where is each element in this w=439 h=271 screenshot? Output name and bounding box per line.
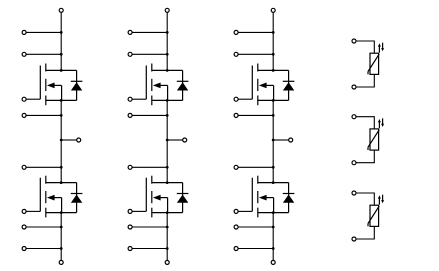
terminal: source aux pin 1 of Q6 column 3 (234, 225, 238, 229)
junction (272, 114, 275, 117)
terminal: gate pin of Q1 (22, 97, 26, 101)
diode D1 (body diode of Q1) (71, 70, 83, 100)
wire: rail to phase output column 2 (167, 139, 183, 141)
terminal: phase output pin column 2 (183, 138, 187, 142)
junction (272, 247, 275, 250)
junction (60, 53, 63, 56)
wire: bottom rail column 1 (60, 213, 62, 261)
junction (166, 226, 169, 229)
terminal: drain aux pin of Q2 column 1 (22, 165, 26, 169)
wire: gate lead of Q3 (132, 98, 146, 100)
wire: top rail column 1 (60, 12, 62, 70)
junction (166, 181, 169, 184)
terminal: source aux pin 2 of Q6 column 3 (234, 247, 238, 251)
terminal: source aux pin 2 of Q2 column 1 (22, 247, 26, 251)
terminal: phase output pin column 1 (77, 138, 81, 142)
wire: lower drain aux to rail column 3 (238, 166, 273, 168)
junction (60, 181, 63, 184)
junction (272, 226, 275, 229)
wire: drain aux 2 to rail column 1 (26, 53, 61, 55)
junction (272, 139, 275, 142)
diode D2 (body diode of Q2) (71, 183, 83, 213)
wire: mid rail (phase node) column 3 (272, 100, 274, 182)
junction (166, 99, 169, 102)
junction (60, 69, 63, 72)
thermistor R3 (NTC) (368, 195, 384, 227)
junction (60, 226, 63, 229)
terminal: bottom source pin column 2 (165, 260, 169, 264)
terminal: source aux pin of Q3 column 2 (128, 113, 132, 117)
terminal: drain aux pin 2 column 3 (234, 52, 238, 56)
terminal: thermistor R1 pin 2 (352, 85, 356, 89)
junction (272, 69, 275, 72)
wire: drain aux 2 to rail column 2 (132, 53, 167, 55)
wire: source aux to rail column 2 (132, 114, 167, 116)
wire: source aux to rail column 3 (238, 114, 273, 116)
junction (60, 247, 63, 250)
wire: R1 bottom lead (356, 74, 374, 87)
terminal: top drain pin, column 1 (59, 8, 63, 12)
wire: R1 top lead (356, 41, 374, 53)
junction (60, 139, 63, 142)
transistor Q5 (N-MOSFET) (252, 64, 288, 106)
wire: source aux 2 to rail column 3 (238, 248, 273, 250)
diode D6 (body diode of Q6) (283, 183, 295, 213)
terminal: source aux pin 1 of Q2 column 1 (22, 225, 26, 229)
junction (272, 181, 275, 184)
wire: rail to phase output column 3 (273, 139, 289, 141)
wire: mid rail (phase node) column 2 (166, 100, 168, 182)
wire: lower drain aux to rail column 2 (132, 166, 167, 168)
wire: rail to phase output column 1 (61, 139, 76, 141)
terminal: thermistor R3 pin 2 (352, 237, 356, 241)
terminal: drain aux pin 1 column 2 (128, 30, 132, 34)
wire: gate lead of Q5 (238, 98, 252, 100)
junction (166, 139, 169, 142)
terminal: bottom source pin column 3 (271, 260, 275, 264)
terminal: thermistor R2 pin 2 (352, 161, 356, 165)
terminal: drain aux pin of Q4 column 2 (128, 165, 132, 169)
terminal: drain aux pin 1 column 1 (22, 30, 26, 34)
wire: bottom rail column 3 (272, 213, 274, 261)
diode D5 (body diode of Q5) (283, 70, 295, 100)
junction (272, 53, 275, 56)
junction (166, 247, 169, 250)
junction (60, 31, 63, 34)
junction (166, 166, 169, 169)
wire: source aux 1 to rail column 3 (238, 226, 273, 228)
wire: gate lead of Q4 (132, 210, 146, 212)
terminal: drain aux pin 1 column 3 (234, 30, 238, 34)
wire: R3 bottom lead (356, 226, 374, 239)
terminal: bottom source pin column 1 (59, 260, 63, 264)
wire: top rail column 3 (272, 12, 274, 70)
terminal: phase output pin column 3 (289, 138, 293, 142)
wire: bottom rail column 2 (166, 213, 168, 261)
terminal: thermistor R2 pin 1 (352, 115, 356, 119)
wire: lower drain aux to rail column 1 (26, 166, 61, 168)
junction (272, 31, 275, 34)
junction (166, 114, 169, 117)
terminal: drain aux pin 2 column 1 (22, 52, 26, 56)
terminal: gate pin of Q4 (128, 209, 132, 213)
wire: source aux 2 to rail column 2 (132, 248, 167, 250)
wire: R2 top lead (356, 117, 374, 129)
junction (60, 99, 63, 102)
wire: drain aux 1 to rail column 1 (26, 31, 61, 33)
terminal: source aux pin 1 of Q4 column 2 (128, 225, 132, 229)
wire: mid rail (phase node) column 1 (60, 100, 62, 182)
wire: top rail column 2 (166, 12, 168, 70)
terminal: gate pin of Q6 (234, 209, 238, 213)
terminal: thermistor R3 pin 1 (352, 191, 356, 195)
diode D4 (body diode of Q4) (177, 183, 189, 213)
junction (60, 211, 63, 214)
terminal: drain aux pin 2 column 2 (128, 52, 132, 56)
terminal: gate pin of Q3 (128, 97, 132, 101)
transistor Q1 (N-MOSFET) (40, 64, 76, 106)
wire: R3 top lead (356, 193, 374, 205)
transistor Q2 (N-MOSFET) (40, 176, 76, 218)
wire: gate lead of Q6 (238, 210, 252, 212)
terminal: thermistor R1 pin 1 (352, 39, 356, 43)
transistor Q3 (N-MOSFET) (146, 64, 182, 106)
terminal: source aux pin 2 of Q4 column 2 (128, 247, 132, 251)
wire: source aux 2 to rail column 1 (26, 248, 61, 250)
terminal: gate pin of Q5 (234, 97, 238, 101)
terminal: source aux pin of Q5 column 3 (234, 113, 238, 117)
junction (272, 211, 275, 214)
diode D3 (body diode of Q3) (177, 70, 189, 100)
wire: drain aux 1 to rail column 3 (238, 31, 273, 33)
junction (166, 53, 169, 56)
wire: R2 bottom lead (356, 150, 374, 163)
junction (272, 99, 275, 102)
terminal: gate pin of Q2 (22, 209, 26, 213)
junction (166, 69, 169, 72)
junction (272, 166, 275, 169)
terminal: source aux pin of Q1 column 1 (22, 113, 26, 117)
junction (60, 114, 63, 117)
wire: drain aux 1 to rail column 2 (132, 31, 167, 33)
wire: source aux 1 to rail column 1 (26, 226, 61, 228)
wire: gate lead of Q2 (26, 210, 40, 212)
terminal: top drain pin, column 2 (165, 8, 169, 12)
terminal: drain aux pin of Q6 column 3 (234, 165, 238, 169)
junction (60, 166, 63, 169)
wire: source aux 1 to rail column 2 (132, 226, 167, 228)
thermistor R1 (NTC) (368, 43, 384, 75)
wire: drain aux 2 to rail column 3 (238, 53, 273, 55)
thermistor R2 (NTC) (368, 118, 384, 150)
junction (166, 31, 169, 34)
transistor Q4 (N-MOSFET) (146, 176, 182, 218)
wire: source aux to rail column 1 (26, 114, 61, 116)
wire: gate lead of Q1 (26, 98, 40, 100)
transistor Q6 (N-MOSFET) (252, 176, 288, 218)
junction (166, 211, 169, 214)
terminal: top drain pin, column 3 (271, 8, 275, 12)
